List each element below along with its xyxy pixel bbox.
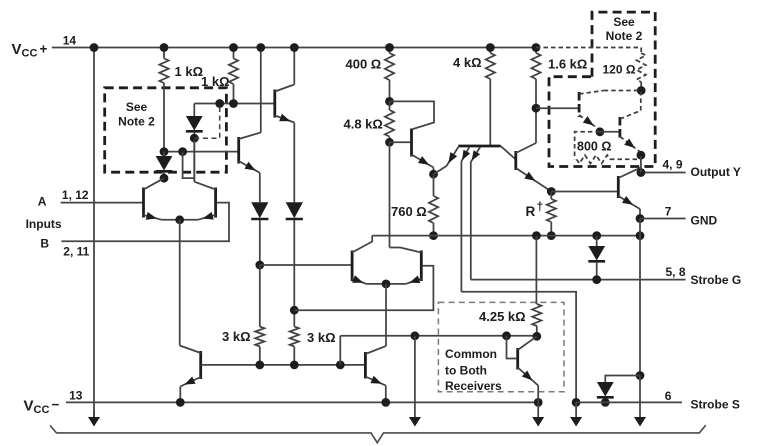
svg-text:V: V: [24, 398, 34, 415]
wire bias line: [201, 364, 365, 366]
svg-text:+: +: [40, 42, 48, 57]
transistor Q10 (triple-emitter gate): [458, 145, 500, 148]
resistor R7 760 Ohm: [433, 174, 435, 196]
svg-text:4.8 kΩ: 4.8 kΩ: [344, 117, 383, 132]
junction Q6/Q7 emitters: [382, 280, 391, 289]
wire strobe S line (pin 6): [576, 401, 682, 403]
resistor R6 4.8 kOhm: [389, 101, 391, 110]
svg-text:R: R: [526, 204, 536, 219]
junction D6 cathode / strobe S: [601, 398, 610, 407]
svg-text:CC: CC: [22, 48, 38, 60]
junction Q4 collector / VCC+: [256, 43, 265, 52]
junction R4 / bias line: [290, 361, 299, 370]
junction diode D6 anode link: [636, 371, 645, 380]
junction bias/other-receiver drop: [411, 331, 420, 340]
transistor Q11 (phase splitter): [514, 151, 517, 170]
junction node/GND riser: [636, 231, 645, 240]
dashed bypass across D1: [194, 104, 219, 139]
wire node R2-base line: [194, 103, 273, 105]
junction R1 bottom: [160, 147, 169, 156]
svg-text:Output Y: Output Y: [691, 165, 741, 179]
junction node Q (diff2 right base): [290, 306, 299, 315]
transistor Q5 (level shift B): [273, 90, 276, 118]
resistor R4 3 kOhm: [290, 327, 299, 347]
junction Q15 emitter node: [637, 151, 646, 160]
wire GND riser: [639, 219, 641, 236]
svg-text:1 kΩ: 1 kΩ: [175, 64, 204, 79]
transistor Q14 (pull-up, dashed): [536, 107, 578, 109]
wire VCC- rail (pin 13): [66, 401, 538, 403]
junction VCC+/R5: [385, 43, 394, 52]
resistor R9 1.6 kOhm: [535, 48, 537, 54]
junction Q9 emitter node: [429, 170, 438, 179]
wire GND node down: [639, 236, 641, 376]
junction VCC+/R1: [160, 43, 169, 52]
svg-text:4, 9: 4, 9: [663, 158, 683, 172]
junction Q12 emitter / GND: [636, 214, 645, 223]
diode D5: [596, 236, 598, 246]
svg-text:4 kΩ: 4 kΩ: [453, 55, 482, 70]
dashed box Common to Both Receivers: [438, 302, 564, 391]
junction D1 cathode: [190, 134, 199, 143]
svg-text:7: 7: [665, 205, 672, 219]
junction VCC+/R2: [229, 43, 238, 52]
junction R11 bottom: [637, 86, 646, 95]
junction bias / mirror riser: [336, 361, 345, 370]
wire D6 link down + arrow: [639, 376, 641, 419]
svg-text:4.25 kΩ: 4.25 kΩ: [479, 309, 526, 324]
transistor Q3 (current source A): [199, 351, 202, 379]
junction VCC+ / feed: [90, 43, 99, 52]
wire node Q to Q7 base: [294, 266, 433, 310]
wire bias drop + arrow: [414, 336, 416, 418]
svg-text:3 kΩ: 3 kΩ: [307, 330, 336, 345]
wire output Y (pins 4,9): [641, 172, 686, 174]
svg-text:V: V: [12, 41, 22, 58]
junction R10 bottom / Q13 collector: [532, 332, 541, 341]
junction node/4.25k feed: [532, 231, 541, 240]
svg-text:Note 2: Note 2: [606, 29, 643, 43]
junction R6 bottom: [385, 138, 394, 147]
wire internal node line: [372, 235, 640, 237]
junction Q1/Q2 emitters: [175, 215, 184, 224]
svg-text:Note 2: Note 2: [118, 115, 155, 129]
diode D4 level shift: [293, 123, 295, 203]
transistor Q2 (input B): [214, 188, 217, 218]
resistor R1 1 kOhm: [163, 48, 165, 59]
wire bias riser: [339, 336, 341, 365]
resistor R12 800 Ohm (dashed): [575, 132, 600, 160]
junction Q8 emitter / VCC-: [381, 398, 390, 407]
junction VCC+/R8: [486, 43, 495, 52]
wire R6 node down to Q7 collector: [389, 142, 391, 247]
wire emitter node down: [179, 220, 181, 346]
junction R3 / bias line: [255, 361, 264, 370]
svg-text:3 kΩ: 3 kΩ: [222, 329, 251, 344]
svg-text:5, 8: 5, 8: [666, 265, 686, 279]
wire bias to common box: [340, 335, 536, 337]
svg-text:GND: GND: [691, 213, 718, 227]
wire common emitters Q1-Q2: [162, 219, 198, 221]
arrow to other receiver (left): [93, 410, 95, 418]
junction R5/R6 node: [385, 97, 394, 106]
svg-text:Strobe G: Strobe G: [691, 273, 742, 287]
resistor R-dagger: [550, 192, 552, 200]
junction clamp-bypass top: [215, 99, 224, 108]
svg-text:2, 11: 2, 11: [63, 245, 89, 259]
junction Q3 emitter / VCC-: [176, 398, 185, 407]
svg-text:13: 13: [69, 388, 83, 402]
svg-text:Receivers: Receivers: [445, 379, 502, 393]
transistor Q8 (current source 2): [364, 352, 367, 379]
wire 2nd emitter node down: [385, 284, 387, 346]
svg-text:14: 14: [63, 34, 77, 48]
brace (per-receiver section): [50, 425, 706, 443]
diode D3 level shift: [259, 173, 261, 202]
junction D2 cathode / Q1 collector: [160, 174, 169, 183]
transistor Q1 (input A): [142, 188, 145, 218]
junction branch to right collector: [178, 147, 187, 156]
junction node/diode D5: [592, 231, 601, 240]
wire Q11 emitter to Q12 base: [551, 191, 617, 193]
junction bias/Q13 base: [502, 331, 511, 340]
junction VCC- rail end: [534, 398, 543, 407]
resistor R2 1 kOhm: [233, 48, 235, 59]
wire R6 node to Q9 base: [390, 141, 411, 143]
junction D5 cathode / strobe G: [592, 275, 601, 284]
resistor R11 120 Ohm (dashed): [640, 48, 642, 54]
wire strobe S path: [461, 292, 576, 403]
svg-text:1.6 kΩ: 1.6 kΩ: [548, 57, 587, 72]
svg-text:See: See: [126, 100, 148, 114]
svg-text:A: A: [38, 195, 47, 209]
junction strobe S node: [572, 398, 581, 407]
svg-text:B: B: [40, 237, 49, 251]
diode D2 clamp: [163, 152, 165, 156]
dashed box See Note 2 (output pull-up): [549, 12, 655, 166]
junction Q5 collector / VCC+: [290, 43, 299, 52]
svg-text:760 Ω: 760 Ω: [391, 204, 427, 219]
junction node P (diff2 left base): [255, 261, 264, 270]
dashed box See Note 2 (input clamps): [105, 88, 227, 172]
resistor R10 4.25 kOhm: [535, 236, 537, 244]
junction R2 bottom: [229, 99, 238, 108]
wire dashed VCC+ extension: [536, 47, 641, 49]
transistor Q4 (level shift A): [237, 137, 240, 164]
wire VCC+ feed to other receiver: [93, 48, 95, 418]
junction R-dagger bottom: [547, 231, 556, 240]
junction Q11 emitter / R-dagger: [547, 187, 556, 196]
svg-text:Common: Common: [445, 347, 497, 361]
svg-text:CC: CC: [34, 404, 50, 416]
transistor Q9: [410, 129, 413, 157]
arrow VCC- to other receiver: [537, 402, 539, 418]
svg-text:400 Ω: 400 Ω: [346, 57, 382, 72]
wire node to Q9 collector: [390, 101, 435, 129]
svg-text:to Both: to Both: [445, 364, 487, 378]
resistor R5 400 Ohm: [389, 48, 391, 54]
transistor Q15 (pull-up, dashed): [600, 131, 619, 133]
junction output Y node: [637, 168, 646, 177]
junction VCC+/R9: [532, 43, 541, 52]
wire input A (pins 1,12): [61, 202, 143, 204]
svg-text:800 Ω: 800 Ω: [577, 140, 611, 154]
resistor R3 3 kOhm: [259, 265, 261, 327]
svg-text:Strobe S: Strobe S: [691, 397, 740, 411]
wire node P to Q6 base: [260, 264, 351, 266]
svg-text:1 kΩ: 1 kΩ: [201, 74, 230, 89]
svg-text:†: †: [537, 200, 544, 214]
transistor Q6 (2nd stage left): [351, 251, 354, 282]
wire branch to right collector: [183, 152, 195, 179]
transistor Q7 (2nd stage right): [420, 251, 423, 282]
wire pullup to output node: [640, 155, 642, 172]
wire VCC+ rail (pin 14): [52, 47, 536, 49]
wire strobe G line (pins 5,8): [471, 279, 686, 281]
diode D6: [605, 376, 640, 383]
wire node R1 bottom line: [164, 151, 239, 153]
arrow strobe S to other receiver: [575, 402, 577, 418]
svg-text:1, 12: 1, 12: [62, 188, 89, 202]
wire input B (pins 2,11): [61, 203, 229, 242]
svg-text:See: See: [613, 15, 635, 29]
transistor Q13 (bias generator): [507, 336, 517, 359]
junction R9 bottom / pullup base: [532, 104, 541, 113]
transistor Q12 (output): [617, 176, 620, 198]
svg-text:6: 6: [665, 389, 672, 403]
svg-text:120 Ω: 120 Ω: [603, 63, 636, 77]
junction Q14 emitter / Q15 base: [596, 127, 605, 136]
resistor R8 4 kOhm: [489, 48, 491, 54]
svg-text:Inputs: Inputs: [26, 217, 62, 231]
wire common emitters Q6-Q7: [367, 283, 406, 285]
wire GND line (pin 7): [640, 218, 686, 220]
junction R7 bottom: [429, 231, 438, 240]
svg-text:−: −: [52, 397, 60, 412]
diode D1 clamp: [193, 104, 195, 117]
